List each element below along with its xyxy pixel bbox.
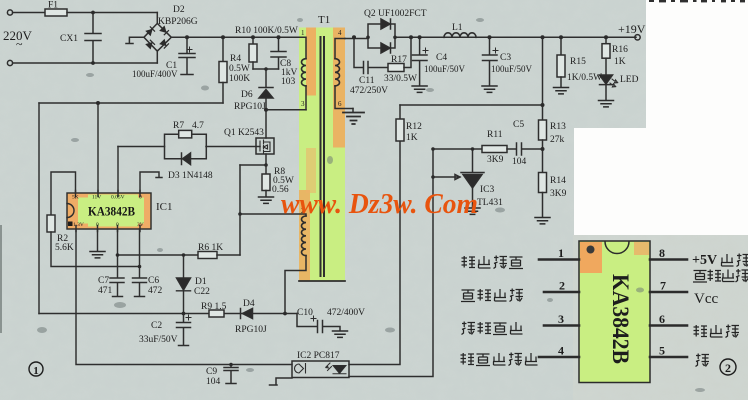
svg-text:Q2 UF1002FCT: Q2 UF1002FCT xyxy=(364,9,427,19)
svg-text:CX1: CX1 xyxy=(60,34,78,44)
svg-text:T1: T1 xyxy=(318,14,330,26)
svg-text:3K9: 3K9 xyxy=(487,155,504,165)
svg-text:27k: 27k xyxy=(550,135,565,145)
svg-text:0.05V: 0.05V xyxy=(111,195,125,201)
svg-text:C9: C9 xyxy=(206,367,217,377)
svg-text:TL431: TL431 xyxy=(477,198,503,208)
svg-text:D2: D2 xyxy=(173,5,185,15)
svg-text:1K/0.5W: 1K/0.5W xyxy=(567,73,602,83)
svg-text:4: 4 xyxy=(338,29,342,37)
svg-text:104: 104 xyxy=(206,377,221,387)
svg-text:1K: 1K xyxy=(614,57,626,67)
svg-text:1K: 1K xyxy=(406,133,418,143)
svg-text:R6 1K: R6 1K xyxy=(198,243,223,253)
svg-text:3V: 3V xyxy=(137,222,144,228)
svg-text:0.5W: 0.5W xyxy=(229,64,250,74)
svg-text:D4: D4 xyxy=(243,299,255,309)
svg-text:D6: D6 xyxy=(241,90,253,100)
svg-text:R13: R13 xyxy=(550,122,566,132)
svg-text:472/400V: 472/400V xyxy=(327,308,365,318)
svg-text:11V: 11V xyxy=(92,195,101,201)
svg-text:Q1 K2543: Q1 K2543 xyxy=(224,128,264,138)
svg-text:C22: C22 xyxy=(194,287,210,297)
svg-text:D1: D1 xyxy=(195,277,207,287)
svg-text:R16: R16 xyxy=(612,45,628,55)
svg-text:+19V: +19V xyxy=(618,22,646,36)
svg-text:0: 0 xyxy=(139,195,142,201)
svg-text:R11: R11 xyxy=(487,130,503,140)
svg-text:0: 0 xyxy=(96,222,99,228)
svg-text:R17: R17 xyxy=(391,55,407,65)
svg-text:6: 6 xyxy=(338,100,342,108)
svg-text:L1: L1 xyxy=(452,23,463,33)
svg-text:104: 104 xyxy=(512,157,527,167)
svg-text:2: 2 xyxy=(725,361,731,375)
svg-text:472: 472 xyxy=(148,286,163,296)
svg-text:471: 471 xyxy=(98,286,113,296)
svg-text:4.7: 4.7 xyxy=(192,121,204,131)
svg-text:IC2 PC817: IC2 PC817 xyxy=(297,351,340,361)
svg-text:R9 1.5: R9 1.5 xyxy=(201,302,227,312)
svg-text:100K: 100K xyxy=(229,74,250,84)
svg-text:0: 0 xyxy=(116,222,119,228)
svg-text:D3 1N4148: D3 1N4148 xyxy=(168,171,213,181)
svg-text:KBP206G: KBP206G xyxy=(158,17,198,27)
svg-text:RPG10J: RPG10J xyxy=(234,102,266,112)
svg-text:100uF/50V: 100uF/50V xyxy=(424,64,466,74)
svg-text:4: 4 xyxy=(558,344,564,358)
svg-text:6: 6 xyxy=(659,312,665,326)
svg-text:472/250V: 472/250V xyxy=(350,86,388,96)
svg-text:103: 103 xyxy=(281,77,296,87)
svg-text:RPG10J: RPG10J xyxy=(235,325,267,335)
svg-text:2: 2 xyxy=(559,279,565,293)
svg-text:5: 5 xyxy=(659,344,665,358)
svg-text:C2: C2 xyxy=(151,321,162,331)
svg-text:C7: C7 xyxy=(98,276,109,286)
svg-text:+5V: +5V xyxy=(692,253,717,268)
svg-text:R7: R7 xyxy=(173,121,184,131)
svg-text:1: 1 xyxy=(301,29,305,37)
svg-text:8: 8 xyxy=(659,246,665,260)
svg-text:www. Dz3w. Com: www. Dz3w. Com xyxy=(281,188,478,220)
svg-text:3: 3 xyxy=(558,312,564,326)
svg-text:1.3V: 1.3V xyxy=(73,222,84,228)
svg-text:C3: C3 xyxy=(500,53,511,63)
svg-text:33uF/50V: 33uF/50V xyxy=(139,335,178,345)
svg-text:3: 3 xyxy=(301,100,305,108)
svg-text:3K9: 3K9 xyxy=(550,189,567,199)
svg-text:F1: F1 xyxy=(48,1,58,11)
svg-text:LED: LED xyxy=(620,75,639,85)
svg-text:5.6K: 5.6K xyxy=(55,243,74,253)
svg-text:R10 100K/0.5W: R10 100K/0.5W xyxy=(235,26,298,36)
svg-text:KA3842B: KA3842B xyxy=(88,205,135,219)
svg-text:1: 1 xyxy=(558,246,564,260)
svg-text:C5: C5 xyxy=(513,120,524,130)
svg-text:R14: R14 xyxy=(550,176,566,186)
svg-text:1: 1 xyxy=(33,365,39,377)
svg-text:5K: 5K xyxy=(72,195,79,201)
svg-text:100uF/50V: 100uF/50V xyxy=(491,64,533,74)
svg-text:100uF/400V: 100uF/400V xyxy=(132,69,178,79)
svg-text:IC3: IC3 xyxy=(480,185,495,195)
svg-text:IC1: IC1 xyxy=(156,201,173,213)
svg-text:~: ~ xyxy=(16,37,23,51)
svg-text:R12: R12 xyxy=(406,122,422,132)
svg-text:C10: C10 xyxy=(297,308,313,318)
svg-text:R4: R4 xyxy=(230,54,241,64)
svg-text:33/0.5W: 33/0.5W xyxy=(384,74,417,84)
svg-text:7: 7 xyxy=(660,279,666,293)
svg-text:R15: R15 xyxy=(570,57,586,67)
svg-text:C6: C6 xyxy=(148,276,159,286)
svg-text:Vcc: Vcc xyxy=(694,291,718,307)
svg-text:KA3842B: KA3842B xyxy=(608,274,633,364)
svg-text:C4: C4 xyxy=(436,53,447,63)
svg-text:C11: C11 xyxy=(359,76,375,86)
